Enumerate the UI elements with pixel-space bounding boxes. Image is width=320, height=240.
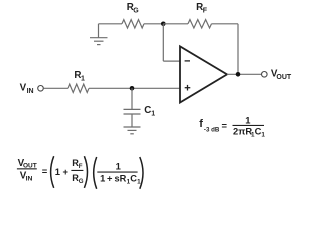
svg-text:V: V: [20, 83, 27, 94]
svg-text:OUT: OUT: [276, 74, 292, 81]
label C1: [144, 105, 155, 118]
svg-text:-3 dB: -3 dB: [204, 126, 220, 133]
label RG: [127, 2, 140, 15]
wire GND1 to RG: [99, 23, 123, 25]
wire C1 to GND2: [131, 114, 133, 127]
op-amp U1: [180, 46, 227, 102]
resistor RF: [188, 20, 212, 28]
paren 1 open: [51, 156, 54, 188]
svg-text:F: F: [203, 8, 208, 15]
wire RF to feedback corner: [212, 23, 239, 25]
svg-text:f: f: [199, 118, 203, 130]
svg-text:=: =: [222, 120, 228, 131]
wire to inverting input: [163, 60, 180, 62]
terminal VIN: [38, 86, 44, 92]
U1 inverting pin mark: [185, 60, 190, 62]
svg-text:1 +: 1 +: [55, 166, 69, 177]
svg-text:+: +: [107, 173, 113, 183]
paren 2 close: [140, 157, 143, 189]
svg-text:1: 1: [261, 132, 265, 139]
node B (R1/C1 junction): [130, 86, 135, 91]
node A (RG/RF junction): [161, 22, 166, 27]
wire node A down to inverting input: [162, 24, 164, 61]
wire RG to node A: [144, 23, 163, 25]
label RF: [196, 2, 208, 15]
svg-text:1: 1: [151, 111, 155, 118]
svg-text:2πR: 2πR: [233, 125, 252, 136]
svg-text:=: =: [42, 165, 48, 176]
label VOUT: [271, 68, 292, 81]
svg-text:1: 1: [116, 160, 121, 171]
wire R1 to noninverting input: [89, 87, 180, 89]
formula VOUT/VIN = (1 + RF/RG)(1/(1+sR1C1)): [17, 156, 143, 189]
ground GND1 (top-left): [90, 24, 108, 45]
svg-text:sR: sR: [115, 173, 127, 183]
resistor RG: [122, 20, 144, 28]
terminal VOUT: [262, 72, 268, 78]
wire VIN to R1: [43, 87, 68, 89]
capacitor C1: [124, 109, 141, 114]
resistor R1: [68, 84, 89, 92]
svg-text:G: G: [79, 178, 84, 185]
paren 1 close: [84, 156, 87, 188]
node C (output/feedback junction): [236, 72, 241, 77]
paren 2 open: [94, 157, 97, 189]
svg-text:1: 1: [100, 173, 105, 183]
wire node A to RF: [163, 23, 188, 25]
U1 noninverting pin mark: [185, 85, 191, 91]
formula f-3dB = 1/(2piR1C1): [199, 115, 265, 139]
ground GND2: [124, 127, 141, 134]
wire node B to C1: [131, 88, 133, 109]
svg-text:1: 1: [245, 115, 250, 126]
svg-text:C: C: [144, 105, 151, 116]
svg-text:IN: IN: [27, 88, 34, 95]
label VIN: [20, 83, 34, 96]
label R1: [74, 70, 85, 83]
svg-text:1: 1: [81, 76, 85, 83]
svg-text:G: G: [133, 8, 139, 15]
svg-text:IN: IN: [26, 176, 33, 183]
wire output: [227, 73, 261, 75]
wire feedback vertical: [237, 24, 239, 75]
svg-text:F: F: [79, 163, 83, 170]
